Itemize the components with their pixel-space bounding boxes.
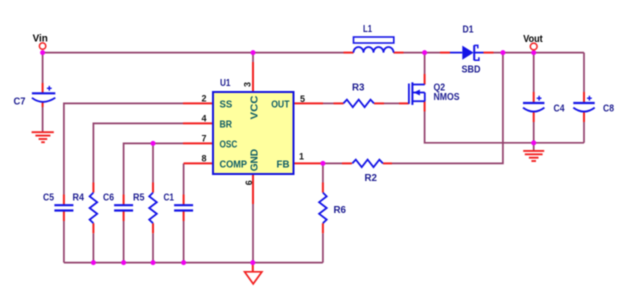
ground earth under C7 [32, 132, 54, 142]
svg-text:L1: L1 [363, 24, 372, 35]
pin stub L1 right [394, 52, 404, 54]
svg-text:COMP: COMP [220, 160, 248, 171]
pin stub C5 top [63, 195, 65, 205]
svg-text:6: 6 [244, 180, 254, 185]
svg-text:SS: SS [220, 100, 233, 111]
wire top rail Vin to L1 [43, 52, 344, 54]
wire C4 bottom to rail [533, 122, 535, 143]
svg-text:FB: FB [277, 160, 290, 171]
svg-text:D1: D1 [463, 25, 474, 36]
wire R4 bottom [92, 233, 94, 262]
junction rail GND [250, 260, 255, 265]
pin stub R2 right [383, 162, 392, 164]
svg-text:R2: R2 [365, 173, 378, 184]
svg-text:C4: C4 [554, 103, 565, 114]
pin stub R6 bottom [322, 223, 324, 233]
svg-text:R3: R3 [352, 82, 365, 93]
capacitor C4 [523, 96, 544, 112]
capacitor C7 [32, 86, 55, 102]
resistor R5 [149, 193, 157, 224]
pin stub C1 top [183, 195, 185, 205]
wire C5 bottom [63, 221, 65, 263]
pin 8 COMP stub [184, 162, 213, 164]
wire bottom gnd rail [64, 262, 323, 264]
inductor L1 coil [354, 47, 394, 53]
wire VCC column [252, 53, 254, 62]
svg-text:OSC: OSC [220, 140, 238, 151]
pin stub C6 bottom [123, 211, 125, 221]
wire R6 bottom [322, 233, 324, 262]
pin stub D1 anode [440, 52, 450, 54]
junction Vout [531, 50, 536, 55]
junction rail R4 [91, 260, 96, 265]
transistor Q2 [409, 82, 425, 105]
pin stub Vin to C7 [42, 83, 44, 93]
svg-text:SBD: SBD [462, 65, 481, 76]
wire R5 bottom [152, 233, 154, 262]
pin 2 SS stub [183, 102, 213, 104]
svg-text:VCC: VCC [249, 96, 260, 120]
junction feedback column [500, 50, 505, 55]
pin stub Q2 drain [424, 74, 426, 85]
pin stub R4 bottom [92, 223, 94, 233]
svg-text:R4: R4 [73, 193, 85, 204]
pin 1 FB stub [293, 162, 323, 164]
svg-text:R5: R5 [133, 193, 145, 204]
capacitor C5 [54, 205, 73, 210]
pin stub C4 top [533, 92, 535, 102]
pin stub C7 bottom [42, 102, 44, 107]
svg-text:C5: C5 [43, 193, 54, 204]
svg-text:8: 8 [201, 154, 206, 164]
wire R2 to Vout rail [392, 53, 503, 164]
pin stub C4 bottom [533, 111, 535, 122]
ground triangle under U1 [245, 272, 262, 284]
pin stub C8 top [583, 92, 585, 102]
svg-text:GND: GND [249, 149, 260, 171]
svg-text:Vin: Vin [33, 34, 48, 45]
svg-text:Vout: Vout [523, 34, 543, 45]
junction Vin [40, 50, 45, 55]
diode D1 [450, 45, 484, 60]
inductor L1 core [354, 37, 394, 43]
capacitor C6 [114, 205, 133, 210]
svg-text:C6: C6 [103, 193, 114, 204]
wire COMP to C1 column [183, 163, 185, 194]
svg-text:3: 3 [242, 82, 252, 87]
svg-text:1: 1 [299, 152, 304, 162]
pin stub R5 top [152, 183, 154, 193]
capacitor C1 [174, 205, 193, 210]
junction FB R6 [320, 161, 325, 166]
capacitor C8 [573, 96, 594, 112]
pin stub L1 left [344, 52, 354, 54]
pin 4 BR stub [183, 122, 213, 124]
pin 5 OUT stub [293, 102, 323, 104]
resistor R4 [90, 193, 98, 224]
pin stub R6 top [322, 183, 324, 193]
wire U1 GND pin to rail [252, 204, 254, 263]
pin stub R2 left [342, 162, 352, 164]
resistor R6 [319, 193, 327, 224]
junction rail C1 [181, 260, 186, 265]
svg-text:OUT: OUT [271, 100, 289, 111]
wire Q2 source to ground rail [425, 112, 584, 143]
pin stub C8 bottom [583, 111, 585, 122]
junction C4 ground [531, 140, 536, 145]
junction VCC [251, 50, 256, 55]
junction Q2 drain [422, 50, 427, 55]
pin stub Q2 source [424, 101, 426, 111]
resistor R3 [343, 100, 374, 108]
pin stub C5 bottom [63, 211, 65, 221]
wire R3 to Q2 gate [384, 102, 399, 104]
pin stub Q2 gate [399, 102, 409, 104]
wire OSC to C6 column [124, 143, 183, 194]
wire FB to R2 [323, 162, 342, 164]
svg-text:2: 2 [201, 94, 206, 104]
pin 6 GND stub [252, 174, 254, 204]
svg-text:C1: C1 [164, 193, 175, 204]
pin stub D1 cathode [484, 52, 494, 54]
svg-text:4: 4 [201, 114, 206, 124]
junction rail C6 [121, 260, 126, 265]
wire OUT to R3 [323, 102, 334, 104]
pin 7 OSC stub [183, 142, 213, 144]
port Vout circle [530, 43, 537, 50]
wire C1 bottom [183, 221, 185, 263]
svg-text:C7: C7 [14, 97, 26, 108]
svg-text:7: 7 [201, 134, 206, 144]
wire R6 top [322, 163, 324, 182]
pin stub gnd triangle [252, 263, 254, 272]
pin stub R3 right [374, 102, 384, 104]
wire C6 bottom [123, 221, 125, 263]
pin stub R5 bottom [152, 223, 154, 233]
pin stub C1 bottom [183, 211, 185, 221]
svg-text:5: 5 [300, 94, 305, 104]
pin stub R4 top [92, 183, 94, 193]
pin 3 VCC stub [252, 62, 254, 92]
wire Vin down to C7 [42, 53, 44, 83]
port Vin circle [39, 43, 45, 49]
wire gnd stub under C4 rail [533, 143, 535, 151]
wire SS to C5 column [64, 103, 183, 194]
junction rail R5 [151, 260, 156, 265]
ground earth under C4 rail [523, 151, 544, 161]
svg-text:C8: C8 [603, 103, 614, 114]
svg-text:R6: R6 [334, 205, 347, 216]
wire Q2 drain up [424, 53, 426, 74]
wire C7 to ground [42, 107, 44, 132]
wire C8 bottom [583, 122, 585, 143]
resistor R2 [352, 160, 383, 168]
wire OSC junction to R5 [152, 143, 154, 182]
svg-text:BR: BR [220, 120, 233, 131]
pin stub R3 left [334, 102, 344, 104]
svg-text:U1: U1 [220, 78, 231, 89]
op-amp U1 body [213, 92, 294, 174]
wire C8 top [583, 53, 585, 92]
wire BR to R4 column [93, 123, 183, 182]
pin stub C6 top [123, 195, 125, 205]
wire top rail L1 to D1 [404, 52, 441, 54]
wire Vout to C4 [533, 53, 535, 92]
junction OSC R5 [151, 141, 156, 146]
wire top rail D1 to C8 corner [494, 52, 585, 54]
svg-text:NMOS: NMOS [434, 92, 460, 103]
